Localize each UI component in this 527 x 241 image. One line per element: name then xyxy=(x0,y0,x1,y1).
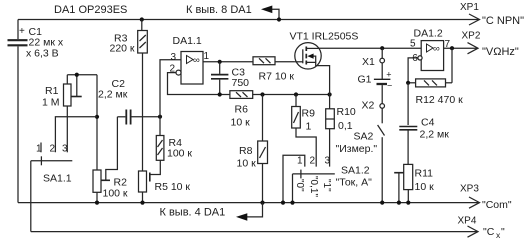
svg-text:5: 5 xyxy=(410,39,416,50)
svg-text:0,1: 0,1 xyxy=(338,120,353,132)
resistor R3 xyxy=(110,17,148,171)
arrow к выв. 4 DA1 xyxy=(160,203,263,221)
svg-text:К выв. 4 DA1: К выв. 4 DA1 xyxy=(160,207,226,219)
svg-text:1: 1 xyxy=(204,51,210,62)
svg-text:X2: X2 xyxy=(362,100,375,112)
svg-text:"VΩHz": "VΩHz" xyxy=(482,46,519,58)
wire rail B (Cx) xyxy=(31,231,478,233)
battery G1 xyxy=(358,63,393,104)
svg-text:750: 750 xyxy=(232,77,250,89)
svg-text:R9: R9 xyxy=(302,108,316,120)
switch SA1.1 common leg xyxy=(30,161,32,232)
transistor VT1 xyxy=(290,31,359,95)
svg-text:R12 470 к: R12 470 к xyxy=(416,94,464,106)
svg-text:"Ток, А": "Ток, А" xyxy=(336,177,373,189)
svg-text:100 к: 100 к xyxy=(167,148,192,160)
capacitor C2 xyxy=(98,78,162,125)
svg-text:2: 2 xyxy=(170,64,176,75)
svg-text:R5 10 к: R5 10 к xyxy=(155,181,191,193)
R2 tap to C2 xyxy=(101,117,117,181)
svg-text:"0,1": "0,1" xyxy=(308,176,319,197)
svg-text:−: − xyxy=(387,81,392,91)
switch SA1.1 xyxy=(31,117,97,185)
svg-text:К выв. 8 DA1: К выв. 8 DA1 xyxy=(186,4,252,16)
resistor R1 (trimmer) xyxy=(42,73,97,153)
wire VT1 drain to DA1.2 pin5 xyxy=(319,46,421,50)
svg-text:∞: ∞ xyxy=(433,44,440,55)
svg-text:1: 1 xyxy=(36,144,42,155)
wire rail A (Com) xyxy=(18,202,479,204)
svg-text:DA1 OP293ES: DA1 OP293ES xyxy=(54,4,127,16)
capacitor C1 xyxy=(8,26,64,60)
svg-text:"Измер.": "Измер." xyxy=(336,143,378,155)
resistor R4 xyxy=(156,117,192,161)
svg-text:DA1.1: DA1.1 xyxy=(173,35,202,47)
svg-text:C4: C4 xyxy=(421,116,435,128)
resistor R7 xyxy=(253,57,295,83)
wire top rail xyxy=(18,19,479,21)
svg-text:X1: X1 xyxy=(362,56,375,68)
svg-text:2: 2 xyxy=(310,156,316,167)
svg-text:2,2 мк: 2,2 мк xyxy=(98,89,128,101)
svg-text:": " xyxy=(501,226,505,238)
wire node to R2 xyxy=(95,75,99,170)
R5 tap to R4 xyxy=(150,160,161,181)
switch SA1.2 xyxy=(281,155,372,205)
svg-text:VT1 IRL2505S: VT1 IRL2505S xyxy=(290,31,359,43)
svg-text:SA2: SA2 xyxy=(354,131,374,143)
svg-text:1: 1 xyxy=(297,156,303,167)
plug XP4 xyxy=(458,216,506,241)
svg-text:6: 6 xyxy=(412,53,418,64)
capacitor C4 xyxy=(399,83,449,165)
svg-text:3: 3 xyxy=(325,156,331,167)
resistor R12 xyxy=(406,48,463,106)
capacitor C3 xyxy=(211,60,249,97)
svg-text:R1: R1 xyxy=(45,85,59,97)
svg-text:3: 3 xyxy=(62,144,68,155)
svg-text:10 к: 10 к xyxy=(237,158,257,170)
terminal X2 xyxy=(362,100,385,112)
svg-text:XP3: XP3 xyxy=(460,184,479,195)
svg-text:1 М: 1 М xyxy=(42,97,60,109)
svg-text:3: 3 xyxy=(171,52,177,63)
svg-text:"C: "C xyxy=(483,226,495,238)
svg-text:XP4: XP4 xyxy=(458,216,477,227)
svg-text:100 к: 100 к xyxy=(103,188,128,200)
wire left edge xyxy=(17,20,19,203)
svg-text:R8: R8 xyxy=(239,145,253,157)
terminal X1 xyxy=(362,48,385,68)
button SA2 xyxy=(336,108,385,205)
op-amp DA1.1 xyxy=(160,35,253,117)
svg-text:R7 10 к: R7 10 к xyxy=(259,71,295,83)
resistor R5 (trimmer) xyxy=(139,171,191,205)
svg-text:XP1: XP1 xyxy=(460,2,479,13)
svg-text:х 6,3 В: х 6,3 В xyxy=(26,48,59,60)
op-amp DA1.2 xyxy=(408,28,478,83)
svg-text:SA1.2: SA1.2 xyxy=(341,165,370,177)
label DA1 OP293ES xyxy=(54,4,127,16)
SA1.2 position labels xyxy=(294,176,332,197)
svg-text:2,2 мк: 2,2 мк xyxy=(420,129,450,141)
svg-text:+: + xyxy=(386,70,391,80)
resistor R11 (trimmer) xyxy=(394,164,434,204)
svg-text:1: 1 xyxy=(306,121,312,133)
resistor R10 xyxy=(326,92,356,166)
resistor R9 xyxy=(292,92,317,166)
svg-text:R6: R6 xyxy=(235,104,249,116)
resistor R6 xyxy=(230,91,330,129)
arrow к выв. 8 DA1 xyxy=(186,4,281,22)
svg-text:DA1.2: DA1.2 xyxy=(414,28,443,40)
svg-text:10 к: 10 к xyxy=(231,117,251,129)
plug XP2 xyxy=(462,31,519,59)
svg-text:220 к: 220 к xyxy=(110,43,135,55)
svg-text:SA1.1: SA1.1 xyxy=(43,173,72,185)
svg-text:XP2: XP2 xyxy=(462,31,481,42)
svg-text:R11: R11 xyxy=(415,168,434,180)
svg-text:"Com": "Com" xyxy=(482,199,512,211)
svg-text:G1: G1 xyxy=(358,74,372,86)
svg-text:"C NPN": "C NPN" xyxy=(482,15,524,27)
svg-text:∞: ∞ xyxy=(193,55,200,66)
svg-text:R10: R10 xyxy=(337,106,356,118)
resistor R2 (trimmer) xyxy=(93,170,128,205)
plug XP1 xyxy=(460,2,524,27)
svg-text:"0": "0" xyxy=(294,179,305,192)
resistor R8 xyxy=(237,92,268,204)
svg-text:2: 2 xyxy=(50,144,56,155)
svg-text:"1": "1" xyxy=(321,179,332,192)
plug XP3 xyxy=(460,184,512,212)
svg-text:+: + xyxy=(19,26,25,37)
svg-text:10 к: 10 к xyxy=(415,181,435,193)
